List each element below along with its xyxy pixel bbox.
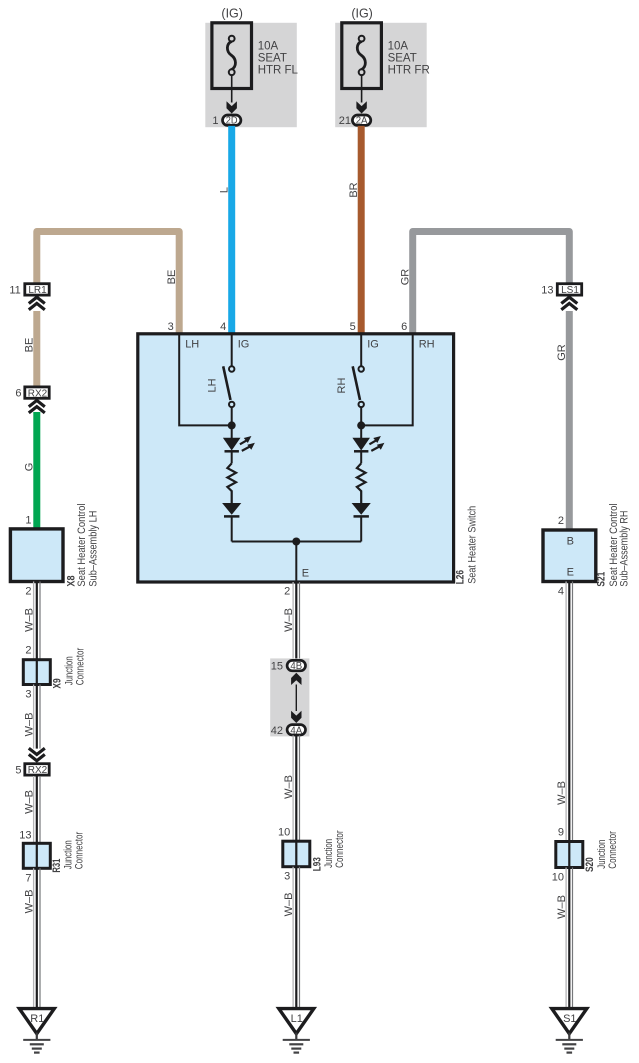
connector RX2 pin 5 bbox=[25, 764, 49, 775]
wire W-B from X9 to RX2 bbox=[34, 685, 40, 749]
svg-text:21: 21 bbox=[339, 115, 351, 127]
wire G (green) from X8 pin 1 to RX2 bbox=[33, 412, 40, 529]
connector 2D pin 1 bbox=[223, 115, 241, 125]
svg-text:L1: L1 bbox=[291, 1013, 303, 1025]
svg-text:W–B: W–B bbox=[24, 790, 36, 814]
diode RH bbox=[352, 503, 371, 515]
svg-text:BE: BE bbox=[24, 338, 36, 353]
svg-text:4B: 4B bbox=[290, 661, 302, 672]
switch RH blade bbox=[353, 366, 360, 400]
seat heater switch L26 body bbox=[138, 334, 454, 582]
svg-text:2: 2 bbox=[25, 586, 31, 598]
svg-text:Seat Heater Switch: Seat Heater Switch bbox=[467, 506, 479, 584]
wire switch RH to junction bbox=[360, 407, 362, 425]
svg-text:R31: R31 bbox=[51, 859, 63, 873]
seat heater control sub-assembly RH S21 bbox=[543, 530, 596, 582]
wire outer column LH bbox=[179, 334, 232, 426]
svg-text:2D: 2D bbox=[226, 116, 238, 127]
switch LH contacts bbox=[229, 366, 234, 371]
svg-text:13: 13 bbox=[541, 284, 553, 296]
LED indicator RH bbox=[352, 438, 370, 451]
svg-text:W–B: W–B bbox=[24, 608, 36, 632]
svg-text:5: 5 bbox=[350, 321, 356, 333]
svg-text:W–B: W–B bbox=[556, 895, 568, 919]
fuse 10A HTR FR bbox=[342, 23, 382, 89]
svg-text:10A: 10A bbox=[388, 41, 409, 53]
svg-text:E: E bbox=[302, 568, 309, 580]
svg-text:LH: LH bbox=[185, 339, 199, 351]
svg-text:W–B: W–B bbox=[24, 713, 36, 737]
svg-text:3: 3 bbox=[168, 321, 174, 333]
svg-text:S20: S20 bbox=[584, 857, 596, 872]
connector LS1 pin 13 bbox=[557, 284, 581, 295]
svg-text:2: 2 bbox=[558, 515, 564, 527]
svg-text:LH: LH bbox=[206, 378, 218, 392]
common rail wire to terminal E bbox=[232, 541, 362, 543]
svg-text:Seat Heater Control: Seat Heater Control bbox=[76, 504, 88, 587]
svg-text:W–B: W–B bbox=[283, 608, 295, 632]
wire junction to LED RH bbox=[360, 425, 362, 438]
svg-text:Connector: Connector bbox=[607, 831, 619, 869]
svg-text:LR1: LR1 bbox=[28, 285, 47, 296]
svg-text:10: 10 bbox=[278, 827, 290, 839]
fuse block shading 2A bbox=[335, 23, 427, 127]
svg-text:3: 3 bbox=[284, 871, 290, 883]
arrow into 4B bbox=[291, 673, 301, 685]
wire LED to resistor LH bbox=[231, 451, 233, 463]
svg-text:2A: 2A bbox=[356, 116, 368, 127]
chevron arrows into LS1 bbox=[561, 297, 577, 303]
connector RX2 pin 6 bbox=[25, 387, 49, 398]
ground L1 bbox=[279, 1009, 314, 1034]
chevron arrows into lower RX2 bbox=[29, 748, 45, 754]
svg-text:SEAT: SEAT bbox=[388, 53, 417, 65]
svg-text:W–B: W–B bbox=[24, 890, 36, 914]
svg-text:3: 3 bbox=[25, 689, 31, 701]
svg-text:10A: 10A bbox=[258, 41, 279, 53]
svg-text:1: 1 bbox=[25, 515, 31, 527]
fuse block shading 2D bbox=[205, 23, 296, 127]
LED emission arrows RH bbox=[369, 436, 384, 451]
diode LH bbox=[222, 503, 241, 515]
svg-text:B: B bbox=[567, 536, 574, 548]
wire W-B from RX2 to R31 bbox=[34, 776, 40, 843]
svg-text:S21: S21 bbox=[596, 572, 608, 587]
wire node E down to box edge bbox=[295, 542, 297, 583]
svg-text:RX2: RX2 bbox=[28, 765, 48, 776]
wire W-B from 4A to L93 bbox=[293, 735, 299, 841]
arrow into 4A bbox=[291, 711, 301, 723]
svg-text:S1: S1 bbox=[563, 1013, 576, 1025]
svg-text:(IG): (IG) bbox=[351, 7, 373, 21]
chevron arrows into RX2 bbox=[29, 400, 45, 406]
svg-text:Connector: Connector bbox=[74, 648, 86, 686]
wire W-B from R31 to ground R1 bbox=[34, 868, 40, 1008]
junction dot LH bbox=[228, 421, 236, 429]
svg-text:2: 2 bbox=[284, 586, 290, 598]
wire diode LH to common rail bbox=[231, 516, 233, 541]
svg-text:13: 13 bbox=[19, 830, 31, 842]
svg-text:R1: R1 bbox=[30, 1013, 44, 1025]
wire GR (gray) from L26 pin 6 up-right-down to connector LS1 bbox=[413, 232, 570, 334]
svg-text:GR: GR bbox=[556, 344, 568, 361]
svg-text:RX2: RX2 bbox=[28, 388, 48, 399]
svg-text:GR: GR bbox=[400, 269, 412, 286]
svg-text:BE: BE bbox=[166, 270, 178, 285]
svg-text:9: 9 bbox=[558, 827, 564, 839]
svg-text:42: 42 bbox=[271, 725, 283, 737]
svg-text:6: 6 bbox=[15, 388, 21, 400]
arrow into connector 2D bbox=[227, 101, 237, 113]
wire fuse 2A down to connector bbox=[361, 75, 363, 103]
svg-text:HTR FL: HTR FL bbox=[258, 65, 299, 77]
wire W-B from L93 to ground L1 bbox=[293, 867, 299, 1009]
svg-text:11: 11 bbox=[9, 284, 20, 296]
wire switch LH to junction bbox=[231, 407, 233, 425]
svg-text:HTR FR: HTR FR bbox=[388, 65, 430, 77]
arrow into connector 2A bbox=[356, 101, 366, 113]
ground R1 bbox=[19, 1009, 54, 1034]
connector LR1 pin 11 bbox=[25, 284, 49, 295]
wire W-B from S21 to S20 bbox=[566, 582, 572, 842]
svg-text:W–B: W–B bbox=[283, 893, 295, 917]
switch RH contacts bbox=[359, 366, 364, 371]
wire LED to resistor RH bbox=[360, 451, 362, 463]
junction dot node E bbox=[292, 538, 300, 546]
svg-text:L93: L93 bbox=[311, 857, 323, 871]
svg-text:Sub–Assembly RH: Sub–Assembly RH bbox=[618, 511, 630, 587]
svg-text:7: 7 bbox=[25, 873, 31, 885]
svg-text:4: 4 bbox=[220, 321, 226, 333]
wire W-B from X8 to X9 bbox=[34, 582, 40, 660]
svg-text:(IG): (IG) bbox=[221, 7, 243, 21]
svg-text:1: 1 bbox=[212, 115, 218, 127]
svg-text:Connector: Connector bbox=[334, 830, 346, 868]
svg-text:X9: X9 bbox=[52, 678, 64, 688]
ground S1 bbox=[552, 1009, 587, 1034]
LED indicator LH bbox=[223, 438, 241, 451]
junction dot RH bbox=[357, 421, 365, 429]
junction connector L93 bbox=[283, 841, 310, 867]
svg-text:4: 4 bbox=[558, 586, 564, 598]
svg-text:W–B: W–B bbox=[556, 781, 568, 805]
resistor RH bbox=[357, 463, 366, 503]
svg-text:15: 15 bbox=[271, 661, 283, 673]
wire junction to LED LH bbox=[231, 425, 233, 438]
svg-text:G: G bbox=[24, 463, 36, 472]
wire fuse 2D down to connector bbox=[231, 75, 233, 103]
svg-text:RH: RH bbox=[419, 339, 435, 351]
svg-text:IG: IG bbox=[367, 339, 379, 351]
chevron arrows into LR1 bbox=[29, 297, 45, 303]
svg-text:Connector: Connector bbox=[74, 832, 86, 870]
wire L (blue) from connector 2D to L26 pin 4 bbox=[228, 126, 235, 334]
harness shading around 4B/4A bbox=[270, 658, 309, 736]
svg-text:5: 5 bbox=[15, 764, 21, 776]
connector 2A pin 21 bbox=[352, 115, 370, 125]
LED emission arrows LH bbox=[240, 436, 255, 451]
svg-text:2: 2 bbox=[25, 645, 31, 657]
svg-text:LS1: LS1 bbox=[561, 285, 579, 296]
wire BE from RX2 to LR1 bbox=[33, 311, 40, 386]
svg-text:6: 6 bbox=[401, 321, 407, 333]
wire BR (brown) from connector 2A to L26 pin 5 bbox=[358, 126, 365, 334]
svg-text:Sub–Assembly LH: Sub–Assembly LH bbox=[88, 511, 100, 587]
connector 4A pin 42 bbox=[287, 725, 305, 735]
svg-text:IG: IG bbox=[238, 339, 250, 351]
svg-text:4A: 4A bbox=[290, 725, 302, 736]
svg-text:SEAT: SEAT bbox=[258, 53, 287, 65]
junction connector X9 bbox=[23, 660, 50, 685]
svg-text:E: E bbox=[567, 567, 574, 579]
seat heater control sub-assembly LH X8 bbox=[10, 529, 63, 582]
wire W-B from S20 to ground S1 bbox=[566, 868, 572, 1009]
svg-text:L26: L26 bbox=[454, 570, 466, 584]
wire outer column RH bbox=[361, 334, 413, 426]
connector 4B pin 15 bbox=[287, 660, 305, 670]
svg-text:RH: RH bbox=[336, 378, 348, 394]
wire between 4B and 4A bbox=[295, 685, 297, 712]
fuse 10A HTR FL bbox=[212, 23, 252, 89]
resistor LH bbox=[227, 463, 236, 503]
wire W-B from L26 E to connector 4B bbox=[293, 582, 299, 660]
wire BE (beige) from L26 pin 3 up-left-down to connector LR1 bbox=[37, 232, 179, 334]
junction connector S20 bbox=[556, 842, 583, 868]
switch LH blade bbox=[223, 366, 230, 400]
svg-text:10: 10 bbox=[552, 872, 564, 884]
junction connector R31 bbox=[23, 843, 50, 868]
svg-text:W–B: W–B bbox=[283, 775, 295, 799]
wire diode RH to common rail bbox=[360, 516, 362, 541]
wire pin to switch LH bbox=[231, 334, 233, 366]
wire GR from S21 to LS1 bbox=[566, 311, 573, 530]
wire pin to switch RH bbox=[360, 334, 362, 366]
svg-text:L: L bbox=[219, 187, 231, 193]
svg-text:BR: BR bbox=[348, 182, 360, 197]
